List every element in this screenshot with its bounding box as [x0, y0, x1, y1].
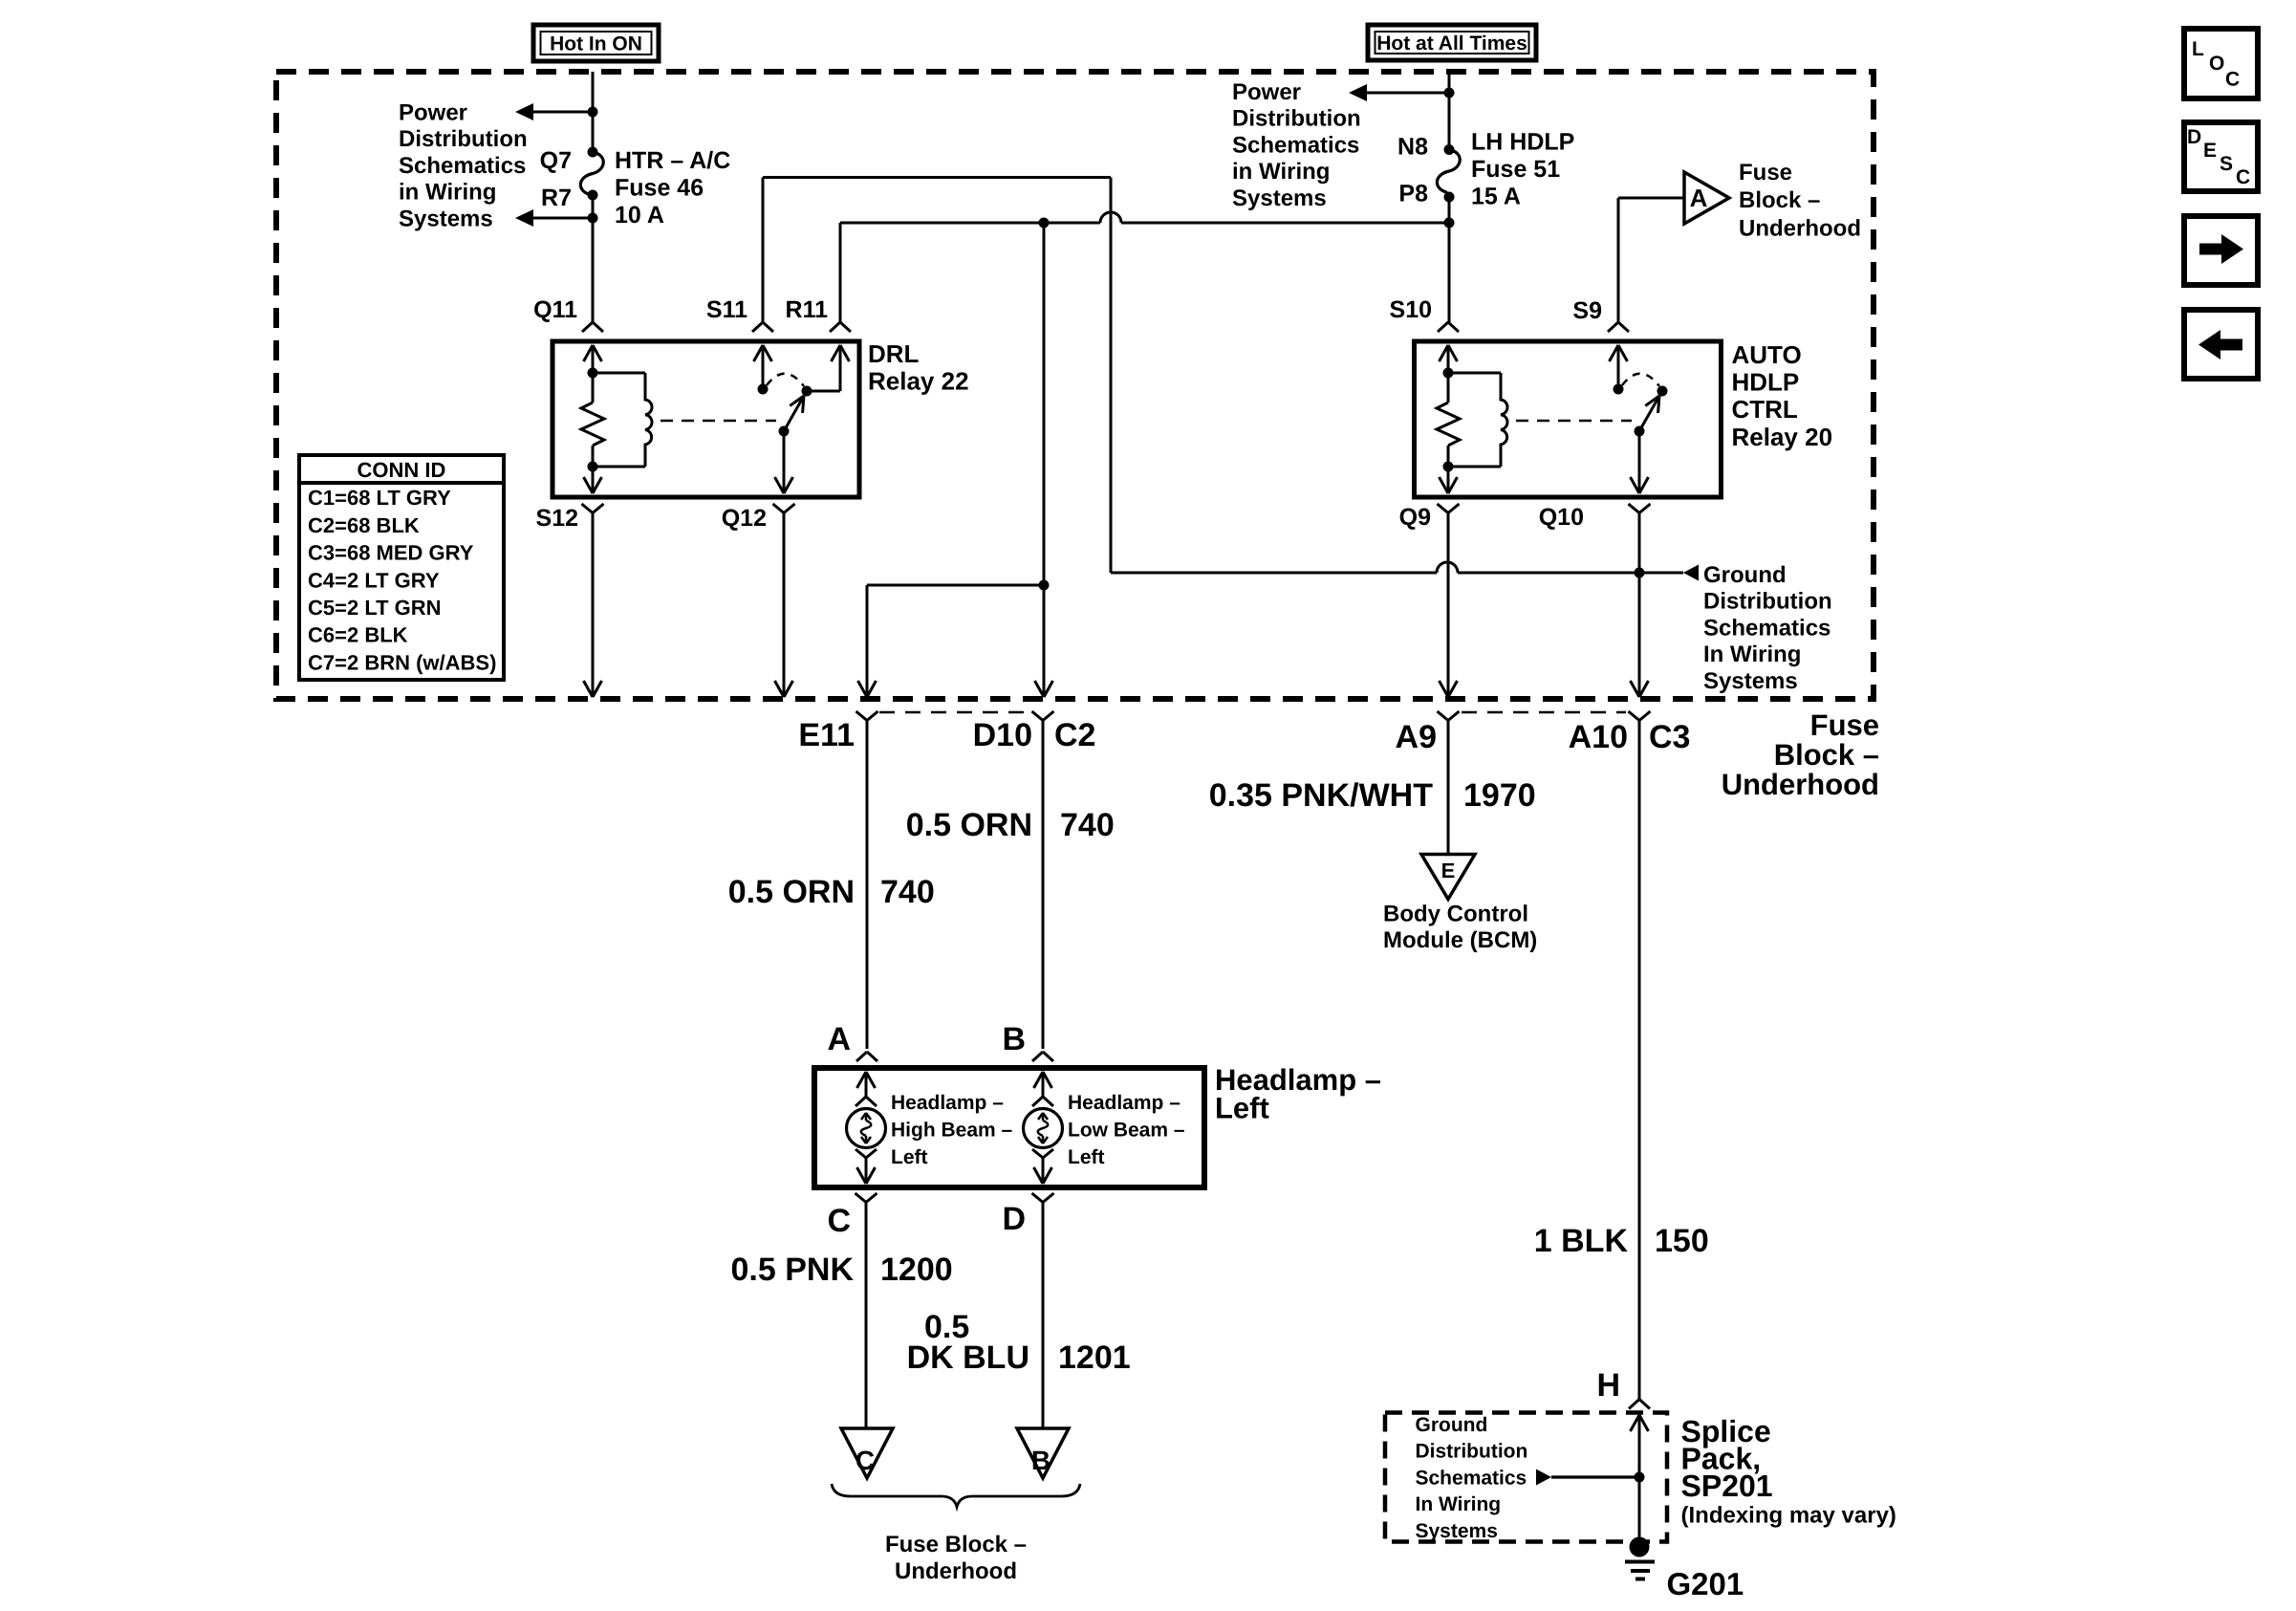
svg-text:C: C [827, 1203, 851, 1239]
svg-text:C3: C3 [1649, 719, 1690, 755]
svg-text:(Indexing may vary): (Indexing may vary) [1681, 1503, 1896, 1529]
svg-text:SP201: SP201 [1681, 1469, 1773, 1503]
svg-text:Ground: Ground [1416, 1414, 1488, 1436]
svg-text:S: S [2220, 153, 2233, 175]
svg-text:O: O [2209, 53, 2224, 75]
svg-text:0.35 PNK/WHT: 0.35 PNK/WHT [1209, 777, 1433, 814]
svg-text:D: D [1002, 1201, 1026, 1237]
svg-text:Left: Left [1068, 1146, 1105, 1168]
svg-text:A: A [827, 1021, 851, 1057]
svg-text:R7: R7 [541, 185, 572, 211]
svg-text:Headlamp –: Headlamp – [1068, 1092, 1180, 1114]
svg-text:D10: D10 [973, 717, 1032, 753]
svg-text:Q12: Q12 [722, 505, 767, 532]
svg-text:Distribution: Distribution [1232, 106, 1361, 132]
svg-text:E: E [1441, 859, 1456, 882]
svg-text:HTR – A/C: HTR – A/C [615, 147, 730, 174]
svg-text:C1=68 LT GRY: C1=68 LT GRY [308, 486, 451, 510]
svg-text:Distribution: Distribution [399, 126, 528, 152]
svg-text:C5=2 LT GRN: C5=2 LT GRN [308, 596, 442, 620]
svg-text:Relay 22: Relay 22 [868, 367, 969, 396]
svg-text:Schematics: Schematics [1703, 615, 1830, 641]
svg-text:Fuse 51: Fuse 51 [1471, 156, 1560, 183]
svg-text:Distribution: Distribution [1416, 1441, 1528, 1463]
svg-text:P8: P8 [1398, 181, 1428, 207]
svg-text:E: E [2203, 140, 2217, 162]
svg-text:C4=2 LT GRY: C4=2 LT GRY [308, 568, 440, 592]
svg-text:In Wiring: In Wiring [1416, 1493, 1502, 1515]
svg-text:Distribution: Distribution [1703, 589, 1832, 615]
svg-text:15 A: 15 A [1471, 184, 1521, 210]
svg-text:Module (BCM): Module (BCM) [1383, 927, 1537, 953]
svg-text:Schematics: Schematics [399, 153, 526, 179]
svg-text:S12: S12 [536, 505, 578, 532]
svg-text:Block –: Block – [1774, 738, 1879, 772]
svg-text:E11: E11 [798, 717, 855, 753]
svg-text:C: C [2225, 69, 2240, 91]
svg-text:Underhood: Underhood [1722, 768, 1879, 801]
svg-text:Fuse 46: Fuse 46 [615, 175, 704, 202]
svg-text:A9: A9 [1396, 719, 1437, 755]
svg-text:Underhood: Underhood [1739, 215, 1861, 241]
svg-text:Q7: Q7 [540, 147, 572, 174]
svg-text:High Beam –: High Beam – [891, 1120, 1013, 1142]
svg-text:Power: Power [1232, 79, 1301, 105]
svg-text:Low Beam –: Low Beam – [1068, 1120, 1185, 1142]
svg-text:Fuse Block –: Fuse Block – [885, 1532, 1027, 1557]
svg-text:Relay 20: Relay 20 [1732, 423, 1833, 451]
svg-text:S9: S9 [1572, 297, 1602, 324]
svg-text:Block –: Block – [1739, 187, 1820, 213]
svg-text:Fuse: Fuse [1739, 160, 1792, 185]
svg-text:1201: 1201 [1058, 1339, 1131, 1376]
svg-text:A: A [1690, 184, 1708, 212]
svg-text:C6=2 BLK: C6=2 BLK [308, 623, 408, 647]
svg-text:C: C [856, 1446, 875, 1475]
svg-text:Systems: Systems [1703, 668, 1798, 694]
svg-text:Hot at All Times: Hot at All Times [1376, 33, 1527, 54]
svg-text:0.5 ORN: 0.5 ORN [906, 807, 1032, 843]
svg-text:10 A: 10 A [615, 202, 664, 229]
svg-text:Ground: Ground [1703, 562, 1787, 588]
svg-text:H: H [1596, 1367, 1620, 1404]
svg-text:1200: 1200 [880, 1252, 953, 1288]
svg-text:in Wiring: in Wiring [1232, 159, 1330, 185]
svg-text:L: L [2192, 38, 2204, 60]
svg-text:0.5 ORN: 0.5 ORN [728, 874, 855, 910]
svg-text:Schematics: Schematics [1416, 1467, 1527, 1489]
svg-text:C7=2 BRN (w/ABS): C7=2 BRN (w/ABS) [308, 650, 496, 674]
svg-text:C3=68 MED GRY: C3=68 MED GRY [308, 541, 474, 565]
svg-text:R11: R11 [786, 296, 829, 323]
svg-text:LH HDLP: LH HDLP [1471, 129, 1574, 156]
svg-text:Underhood: Underhood [895, 1558, 1017, 1584]
svg-text:N8: N8 [1397, 134, 1428, 161]
svg-text:in Wiring: in Wiring [399, 180, 496, 206]
svg-text:1970: 1970 [1463, 777, 1536, 814]
svg-text:D: D [2187, 126, 2201, 148]
svg-text:Q9: Q9 [1399, 504, 1431, 531]
svg-text:Left: Left [1215, 1092, 1269, 1125]
svg-text:Systems: Systems [1416, 1520, 1498, 1542]
svg-text:Schematics: Schematics [1232, 132, 1359, 158]
svg-text:In Wiring: In Wiring [1703, 642, 1801, 667]
svg-text:G201: G201 [1667, 1566, 1744, 1601]
svg-text:740: 740 [880, 874, 935, 910]
svg-text:S11: S11 [706, 296, 747, 323]
svg-text:Body Control: Body Control [1383, 902, 1528, 927]
svg-text:740: 740 [1060, 807, 1115, 843]
svg-text:AUTO: AUTO [1732, 340, 1802, 369]
svg-text:HDLP: HDLP [1732, 368, 1800, 397]
svg-text:DK BLU: DK BLU [907, 1339, 1029, 1376]
svg-text:DRL: DRL [868, 339, 920, 368]
svg-text:Systems: Systems [399, 206, 493, 231]
svg-text:Fuse: Fuse [1810, 708, 1879, 742]
svg-text:C2=68 BLK: C2=68 BLK [308, 513, 420, 537]
svg-text:B: B [1031, 1446, 1051, 1475]
svg-text:Q11: Q11 [533, 296, 577, 323]
svg-text:Q10: Q10 [1539, 504, 1584, 531]
svg-text:150: 150 [1655, 1223, 1709, 1259]
svg-text:C2: C2 [1054, 717, 1095, 753]
svg-text:Hot In ON: Hot In ON [550, 33, 642, 55]
svg-text:Power: Power [399, 100, 467, 126]
svg-text:CTRL: CTRL [1732, 395, 1798, 424]
svg-text:C: C [2236, 166, 2250, 188]
svg-text:Headlamp –: Headlamp – [891, 1092, 1004, 1114]
svg-text:0.5 PNK: 0.5 PNK [731, 1252, 855, 1288]
svg-text:S10: S10 [1390, 296, 1432, 323]
svg-text:A10: A10 [1569, 719, 1628, 755]
svg-text:B: B [1002, 1021, 1026, 1057]
svg-text:CONN ID: CONN ID [357, 458, 446, 482]
svg-text:1 BLK: 1 BLK [1534, 1223, 1629, 1259]
svg-text:Systems: Systems [1232, 185, 1327, 211]
svg-text:Left: Left [891, 1146, 928, 1168]
